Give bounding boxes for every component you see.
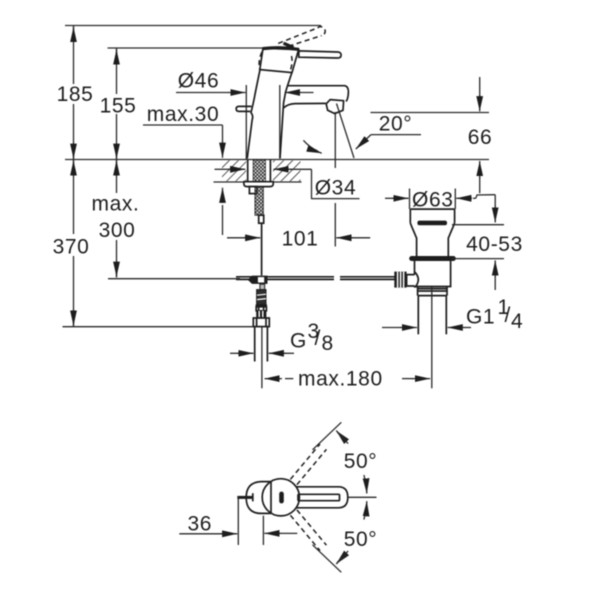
topview handle slot [279,492,284,504]
hose striped section [256,311,266,318]
svg-text:4: 4 [511,310,523,333]
dimension G1 1/4 [382,327,401,329]
dimension 185 line [73,26,75,85]
popup linkage horizontal rod [236,276,334,278]
topview base capsule [246,482,271,514]
hose thread section [257,290,266,305]
reference line aerator height [371,112,490,114]
drain plug top rim [410,208,454,210]
reference line top (spout height) [65,25,321,27]
drain o-ring band [409,256,456,261]
svg-text:155: 155 [100,95,137,118]
svg-text:101: 101 [282,228,319,251]
svg-text:G1: G1 [466,306,495,329]
arc segment down near centerline with arrow [364,501,367,519]
connector deck to 40-53 [476,195,495,199]
dashed lever up 50 [297,449,327,484]
svg-text:Ø46: Ø46 [178,70,220,93]
svg-text:Ø34: Ø34 [315,177,357,200]
svg-text:40-53: 40-53 [466,233,523,256]
dimension 101 [227,237,246,239]
svg-text:max.30: max.30 [147,103,219,126]
handle head block [260,48,299,72]
dimension 370 line [73,160,75,235]
tail pipe walls [417,296,419,335]
lever extension line down [313,545,342,573]
head interior dashes [259,52,262,69]
aerator [326,100,343,114]
arc arrow at lever up [336,431,346,441]
svg-text:300: 300 [99,219,136,242]
rod guide block [249,187,256,194]
dimension max300 line [116,160,118,194]
hose nipple walls [254,327,256,362]
knurled knob [394,272,406,288]
hose collar white band [256,307,266,311]
reference line lever height [108,47,263,49]
svg-text:/: / [315,327,321,350]
dimension 155 line [116,48,118,94]
topview spout inner [298,494,340,500]
side port tube [407,275,415,286]
dimension G3/8 arrows [230,352,238,354]
svg-text:185: 185 [57,83,94,106]
faucet body column [247,70,260,159]
port ball arc [415,272,419,288]
arc segment down near text [337,551,348,562]
svg-text:Ø63: Ø63 [412,189,454,212]
svg-text:/: / [505,304,511,327]
arc segment up near text [337,432,348,443]
arc arrow at lever down [336,554,346,564]
topview body circle [262,479,299,516]
deck bottom line [214,181,302,183]
svg-text:36: 36 [188,513,213,536]
svg-text:66: 66 [468,126,493,149]
dimension 40-53 [494,195,496,207]
drain lower body [415,261,451,287]
topview center line [348,496,377,498]
drain outlet collar [418,287,447,296]
20deg angle arc [303,140,318,151]
solid lever base wedge [284,43,294,47]
deck hatch left [222,160,246,181]
reference line 370 bottom [63,326,254,328]
svg-text:max.180: max.180 [298,368,383,391]
lever raised dashed [278,27,325,47]
deck hatch right [273,160,301,181]
water stream line 20deg [337,104,355,159]
hose center line [261,327,263,388]
stem below pivot [260,284,265,289]
svg-text:G: G [290,330,307,353]
drain center line [431,287,433,389]
dimension 66 [479,77,481,96]
topview spout outline [297,487,348,508]
spout underside [284,103,326,108]
reference line max300 bottom / popup rod level [108,278,240,280]
spout [287,86,348,102]
pop-up rod vertical [261,224,263,275]
arc segment up near centerline with arrow [364,475,367,494]
rod tip [259,215,264,223]
threaded rod below flange [255,187,263,216]
dashed lever down 50 [297,510,327,545]
topview pin [237,496,252,499]
handle head thick top edge [263,48,299,50]
D46 extension lines [245,85,247,159]
hose hex nut [253,318,269,327]
svg-text:20°: 20° [379,113,413,136]
svg-text:max.: max. [92,193,140,216]
svg-text:50°: 50° [344,450,378,473]
aerator center extension line [334,112,336,168]
drain plug dark band [417,221,447,226]
shank thread column [253,160,265,182]
lever solid horizontal [299,51,341,58]
shank outer walls through deck [247,160,249,182]
mounting flange washer [244,182,273,187]
deck top line [65,159,489,161]
lever extension line up [313,422,342,450]
svg-text:50°: 50° [344,528,378,551]
drain neck taper [410,223,454,257]
linkage pivot clamp [248,276,268,284]
svg-text:8: 8 [322,332,334,355]
svg-text:370: 370 [53,236,90,259]
temperature stop tab [236,106,251,111]
